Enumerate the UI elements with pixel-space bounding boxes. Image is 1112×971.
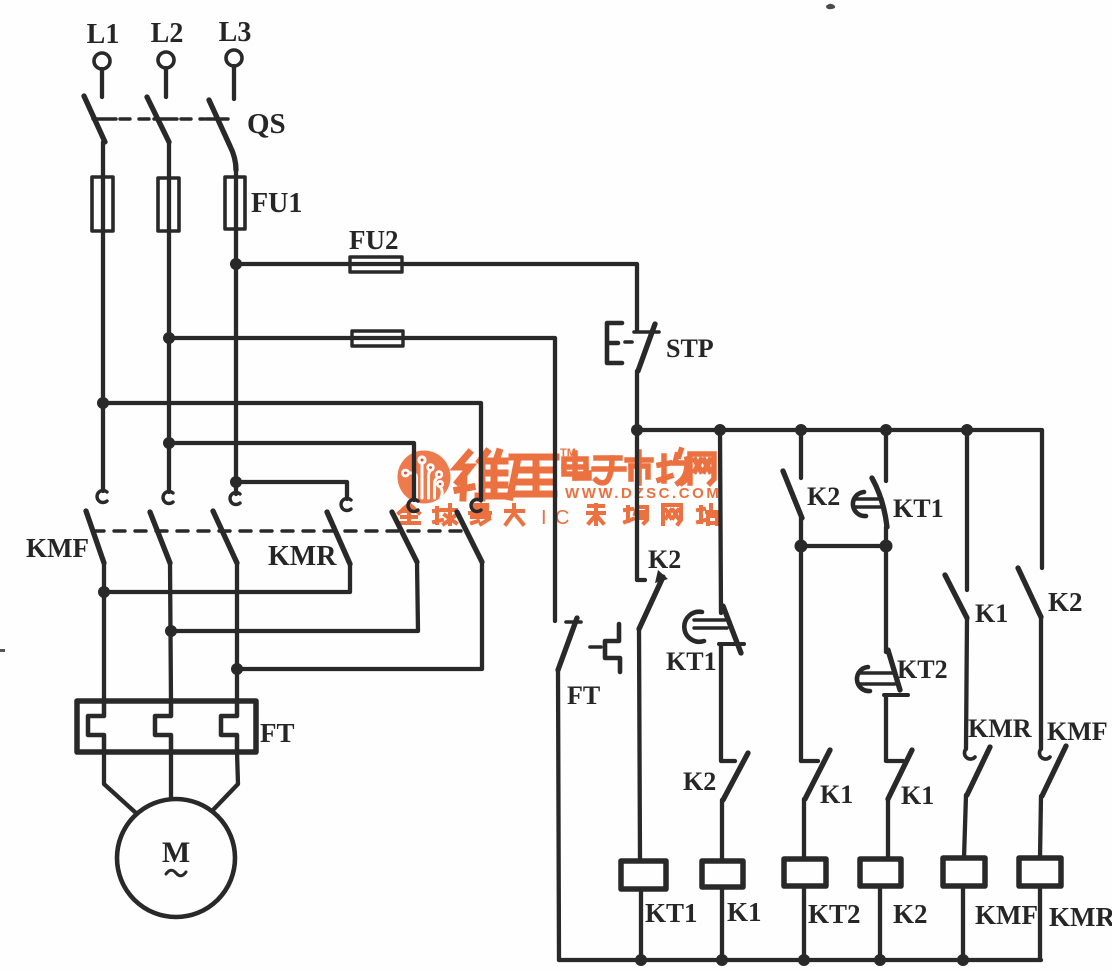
contactor KMR pole 4 hook	[341, 498, 351, 510]
terminal L1	[94, 53, 110, 69]
wire KMR pole4 output	[104, 564, 350, 592]
thermal relay FT heater 2	[155, 702, 171, 752]
svg-text:QS: QS	[247, 108, 286, 140]
motor wave symbol	[166, 870, 186, 876]
watermark logo circle	[398, 451, 451, 504]
scan artifact	[826, 4, 835, 9]
contact K1 branch5 blade	[945, 575, 967, 618]
coil KT1	[621, 861, 666, 889]
contact KMR NC blade	[967, 747, 990, 795]
wire coil KT2 to bottom bus	[802, 886, 806, 960]
svg-text:KMF: KMF	[975, 900, 1038, 930]
svg-text:KT2: KT2	[808, 899, 861, 929]
wire L1 vertical	[101, 231, 105, 491]
wire L3 QS to FU1	[234, 170, 238, 177]
node bus junction 2	[714, 424, 726, 436]
thermal actuator symbol	[590, 645, 601, 649]
switch QS pole 2 blade	[147, 97, 169, 142]
contact KMR NC hook	[964, 749, 975, 759]
svg-text:KT1: KT1	[666, 647, 717, 676]
wire coil KMR to bottom bus	[1038, 886, 1042, 960]
contact K1 branch4 blade	[888, 750, 912, 799]
svg-text:KMF: KMF	[1047, 717, 1108, 746]
contact KMF NC hook	[1039, 749, 1050, 759]
wire coil KMF to bottom bus	[961, 886, 965, 960]
contactor KMF pole 3 hook	[230, 492, 240, 504]
terminal L3	[226, 50, 242, 66]
svg-text:K2: K2	[683, 767, 716, 796]
wire branch4 upper	[884, 430, 888, 481]
switch QS pole 3 blade	[209, 100, 236, 170]
svg-text:K2: K2	[807, 482, 840, 511]
node bottom junction 2	[716, 954, 728, 966]
contact K2 branch6 blade	[1018, 568, 1041, 617]
wire coil K2 to bottom bus	[878, 886, 882, 960]
contact KT1 delayed branch2 blade	[723, 606, 741, 653]
svg-text:KMR: KMR	[268, 541, 337, 572]
contactor KMF pole 1 blade	[86, 511, 104, 563]
fuse FU2	[350, 257, 402, 272]
contact KT2 delayed branch4 arc	[857, 667, 870, 691]
watermark text dianzishichangwang	[564, 450, 714, 483]
wire FU2 horizontal	[236, 264, 637, 331]
svg-text:FU1: FU1	[251, 188, 302, 219]
svg-text:K1: K1	[727, 897, 762, 927]
contact K2 branch3 blade	[783, 471, 802, 518]
node bottom junction 1	[635, 954, 647, 966]
wire branch2 middle	[721, 646, 735, 761]
contactor KMR pole 5 hook	[408, 499, 418, 511]
wire branch6 middle	[1039, 617, 1043, 749]
svg-text:C: C	[555, 507, 569, 529]
svg-text:K2: K2	[1048, 587, 1083, 617]
wire control fuse2 horizontal	[169, 338, 555, 621]
svg-text:STP: STP	[666, 334, 714, 363]
svg-text:FT: FT	[567, 681, 600, 710]
fuse FU1 pole 2	[158, 178, 179, 231]
svg-text:KMR: KMR	[1049, 902, 1112, 932]
fuse FU1 pole 3	[225, 177, 245, 229]
wire L2 to KMR pole5	[169, 443, 414, 500]
svg-text:K1: K1	[820, 780, 853, 809]
contact K1 branch3 blade	[805, 750, 830, 799]
node KMF-KMR pole2 junction	[165, 625, 177, 637]
wire branch2 lower	[720, 800, 724, 861]
node bus junction 3	[795, 424, 807, 436]
contactor KMF pole 2 hook	[163, 491, 173, 503]
svg-text:K1: K1	[901, 781, 934, 810]
thermal relay FT box	[77, 701, 256, 752]
contact KT2 delayed branch4 seat	[884, 693, 908, 697]
wire branch5 upper	[965, 430, 969, 590]
contactor KMF pole 3 blade	[213, 511, 237, 563]
svg-text:K1: K1	[975, 599, 1008, 628]
watermark slogan	[399, 504, 719, 524]
svg-text:WWW.DZSC.COM: WWW.DZSC.COM	[565, 485, 721, 502]
coil KT2	[784, 859, 826, 886]
svg-text:K2: K2	[648, 545, 681, 574]
wire L2 QS to FU1	[167, 142, 171, 178]
thermal relay FT heater 3	[221, 702, 237, 752]
switch QS pole 1 blade	[84, 96, 105, 142]
switch QS linkage dashes	[120, 117, 152, 120]
contact KT1 delayed branch2 arc	[684, 612, 704, 642]
wire branch6 lower	[1040, 796, 1041, 858]
svg-text:K2: K2	[893, 899, 928, 929]
wire STP to bus	[635, 371, 639, 430]
wire branch5 middle	[966, 618, 967, 749]
wire KMR pole6 output	[237, 562, 482, 669]
scan artifact left edge	[0, 649, 5, 652]
motor M circle	[117, 799, 235, 917]
fuse FU1 pole 1	[92, 177, 113, 231]
watermark text weiku	[457, 452, 556, 498]
contact KT1 delayed branch2 seat	[719, 642, 744, 646]
node branch3-4 link right	[880, 540, 893, 553]
wire KMR pole5 output	[171, 562, 418, 631]
contactor KMF pole 1 hook	[97, 490, 107, 502]
contactor linkage dashed line	[93, 529, 465, 532]
node KMF-KMR pole3 junction	[231, 663, 243, 675]
wire branch3 lower	[802, 799, 806, 859]
node L3-FU2 junction	[230, 258, 242, 270]
wire L2 vertical	[167, 231, 171, 492]
svg-text:M: M	[162, 836, 190, 869]
terminal L2	[158, 52, 174, 68]
svg-text:KMR: KMR	[968, 714, 1032, 743]
svg-text:L3: L3	[219, 17, 252, 48]
pushbutton STP actuator	[607, 323, 622, 363]
contact KT1 delayed branch4 arc	[853, 492, 866, 516]
wire branch1 upper	[637, 430, 645, 580]
fuse control line 2	[352, 331, 403, 346]
node L2-KMR junction	[163, 437, 175, 449]
wire branch4 middle2	[886, 697, 903, 761]
wire L1 to KMR pole6	[103, 403, 481, 500]
wire motor lead V	[169, 752, 173, 799]
node KMF-KMR pole1 junction	[98, 586, 110, 598]
pushbutton STP blade	[634, 330, 659, 334]
contact FT NC blade	[558, 618, 577, 670]
contactor KMR pole 6 hook	[471, 499, 481, 511]
coil KMF	[943, 858, 985, 886]
wire coil KT1 to bottom bus	[639, 889, 643, 960]
contact KT2 delayed branch4 blade	[888, 650, 900, 690]
wire branch1 lower	[639, 629, 640, 861]
wire FT branch lower	[558, 670, 559, 960]
node bus junction 4	[880, 424, 892, 436]
svg-text:KT1: KT1	[645, 898, 698, 928]
contactor KMR pole 6 blade	[457, 512, 482, 562]
wire motor lead U	[104, 752, 136, 813]
contact KMF NC blade	[1042, 746, 1066, 796]
svg-text:FU2: FU2	[349, 225, 399, 255]
node L3-KMR junction	[230, 476, 242, 488]
wire L3 vertical	[234, 229, 238, 494]
wire control bus top	[637, 430, 1042, 568]
contact K2 branch2 blade	[723, 753, 748, 800]
wire branch3-4 link	[801, 544, 886, 548]
wire KMF pole3 down to FT	[235, 563, 239, 702]
svg-text:L2: L2	[151, 18, 184, 49]
wire branch2 upper	[720, 430, 721, 613]
contactor KMF pole 2 blade	[150, 512, 170, 563]
svg-text:L1: L1	[87, 19, 120, 50]
wire control bus bottom	[559, 958, 1041, 962]
node L1-KMR junction	[97, 397, 109, 409]
wire branch3 middle	[799, 518, 803, 761]
coil KMR	[1019, 858, 1061, 886]
svg-text:FT: FT	[260, 718, 295, 748]
wire L1 QS to FU1	[101, 142, 105, 177]
wire KMF pole1 down to FT	[102, 563, 106, 702]
node bottom junction 5	[957, 954, 969, 966]
node branch3-4 link left	[795, 540, 808, 553]
node L2-fuse2 junction	[163, 332, 175, 344]
contactor KMR pole 5 blade	[392, 512, 417, 562]
node bus junction 1	[631, 424, 643, 436]
node bottom junction 3	[798, 954, 810, 966]
svg-text:I: I	[541, 507, 547, 529]
svg-text:KT1: KT1	[893, 494, 944, 523]
wire branch4 middle1	[884, 527, 888, 652]
wire L3 to KMR pole4	[236, 482, 347, 499]
contactor KMR pole 4 blade	[327, 512, 350, 564]
wire branch3 upper	[799, 430, 803, 478]
coil K1	[702, 861, 743, 887]
wire branch4 lower	[886, 799, 890, 859]
node bottom junction 4	[874, 954, 886, 966]
thermal relay FT heater 1	[88, 702, 104, 752]
node bus junction 5	[961, 424, 973, 436]
wire KMF pole2 down to FT	[170, 563, 171, 702]
wire motor lead W	[213, 752, 238, 810]
contact K2 branch1 blade	[639, 577, 663, 629]
svg-text:KT2: KT2	[897, 655, 948, 684]
coil K2	[860, 859, 901, 886]
svg-text:KMF: KMF	[26, 533, 89, 563]
wire branch5 lower	[964, 795, 966, 858]
contact KT1 delayed branch4 blade	[872, 478, 887, 527]
wire coil K1 to bottom bus	[720, 887, 724, 960]
contact K1 branch3 seat	[801, 759, 818, 763]
